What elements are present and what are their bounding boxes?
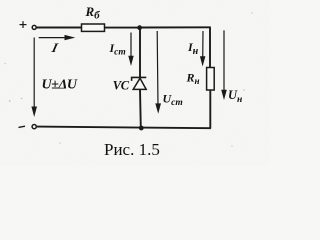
voltage arrow Uct [155, 31, 161, 114]
wire middle branch lower [139, 89, 142, 128]
resistor R6 (ballast) [82, 24, 105, 31]
wire top-right segment [140, 26, 211, 28]
wire top-middle segment [105, 27, 140, 29]
current arrow IH [200, 31, 206, 67]
node junction top (dot) [137, 25, 142, 30]
voltage arrow UH [221, 30, 227, 100]
wire right vertical lower [209, 90, 211, 128]
svg-text:U±ΔU: U±ΔU [42, 78, 78, 93]
svg-text:Рис. 1.5: Рис. 1.5 [104, 140, 160, 159]
minus sign [19, 126, 26, 127]
current arrow Ict [128, 33, 133, 67]
plus sign [20, 21, 27, 28]
label I [50, 40, 61, 55]
voltage arrow U±dU [31, 38, 37, 118]
resistor RH (load) [207, 68, 215, 91]
wire bottom segment [37, 127, 211, 129]
svg-text:VC: VC [113, 79, 130, 93]
terminal - (negative input, open circle) [32, 125, 36, 129]
wire right vertical upper [209, 27, 211, 67]
wire top-left segment [37, 27, 82, 29]
scan speckles (noise) [5, 12, 253, 146]
terminal + (positive input, open circle) [32, 25, 36, 29]
zener diode VC [132, 77, 147, 89]
current arrow I [39, 35, 76, 40]
node junction bottom (dot) [139, 126, 144, 131]
wire middle branch upper [139, 28, 141, 78]
